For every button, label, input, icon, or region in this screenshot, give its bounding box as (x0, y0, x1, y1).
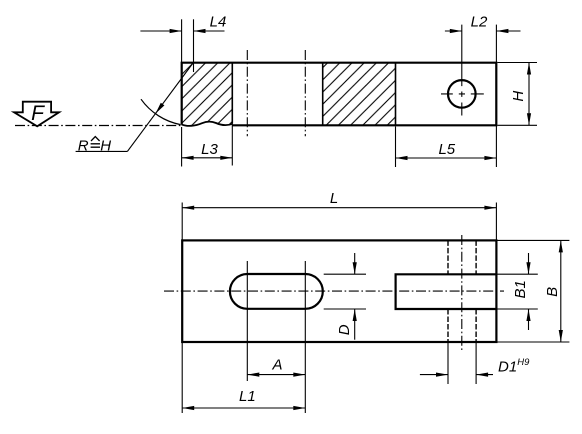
part outline plan view (182, 240, 496, 342)
centerline slot arc 2 (top view) (304, 50, 306, 136)
hidden hole line left (447, 240, 449, 342)
dimension B (498, 240, 570, 342)
svg-text:H9: H9 (517, 357, 530, 368)
extension line arc center left (246, 261, 248, 381)
svg-text:L3: L3 (201, 141, 218, 158)
slot obround (230, 274, 323, 309)
dimension D (324, 253, 366, 340)
radius construction arc (141, 99, 181, 124)
section boundary right of block2 (395, 63, 397, 126)
svg-text:L4: L4 (210, 14, 227, 31)
section boundary right of block1 (231, 63, 233, 124)
hole circle (448, 80, 476, 108)
svg-text:A: A (271, 356, 282, 373)
hole centermark vertical (461, 25, 463, 116)
dimension A (247, 356, 305, 376)
dimension L (182, 190, 496, 241)
dimension H (498, 63, 538, 126)
svg-text:L5: L5 (438, 141, 455, 158)
force action centerline (15, 125, 182, 127)
svg-text:B1: B1 (512, 280, 529, 298)
dimension L1 (182, 342, 305, 413)
hole centermark horizontal (441, 93, 484, 95)
hatch fill block 1 (left section) (178, 58, 238, 132)
svg-text:L: L (330, 190, 338, 207)
dimension L2 (445, 14, 521, 63)
force symbol F (14, 102, 59, 127)
svg-text:L1: L1 (239, 388, 256, 405)
hidden hole line right (475, 240, 477, 342)
wavy bottom edge (radiused surface) (182, 122, 233, 126)
centerline slot arc 1 (top view) (246, 50, 248, 136)
extension line arc center right (304, 261, 306, 413)
dimension D1 H9 (420, 342, 530, 384)
dimension L5 (396, 125, 497, 167)
section boundary left of block2 (322, 63, 324, 126)
radius leader arrowhead (155, 103, 164, 114)
dimension B1 (498, 253, 538, 330)
part outline top view (182, 63, 497, 126)
svg-text:F: F (31, 102, 45, 125)
dimension L3 (182, 124, 233, 167)
hole centerline plan (461, 235, 463, 351)
svg-text:D1: D1 (498, 358, 517, 375)
svg-text:B: B (544, 287, 561, 297)
plan horizontal centerline (164, 290, 504, 292)
open slot (396, 274, 497, 309)
radius note R corresponds H (76, 137, 128, 155)
dimension L4 (140, 14, 226, 72)
svg-text:D: D (336, 324, 353, 335)
svg-text:L2: L2 (471, 14, 488, 31)
svg-text:H: H (510, 91, 527, 102)
hatch fill block 2 (middle section) (323, 63, 396, 126)
radius leader line (127, 63, 193, 151)
